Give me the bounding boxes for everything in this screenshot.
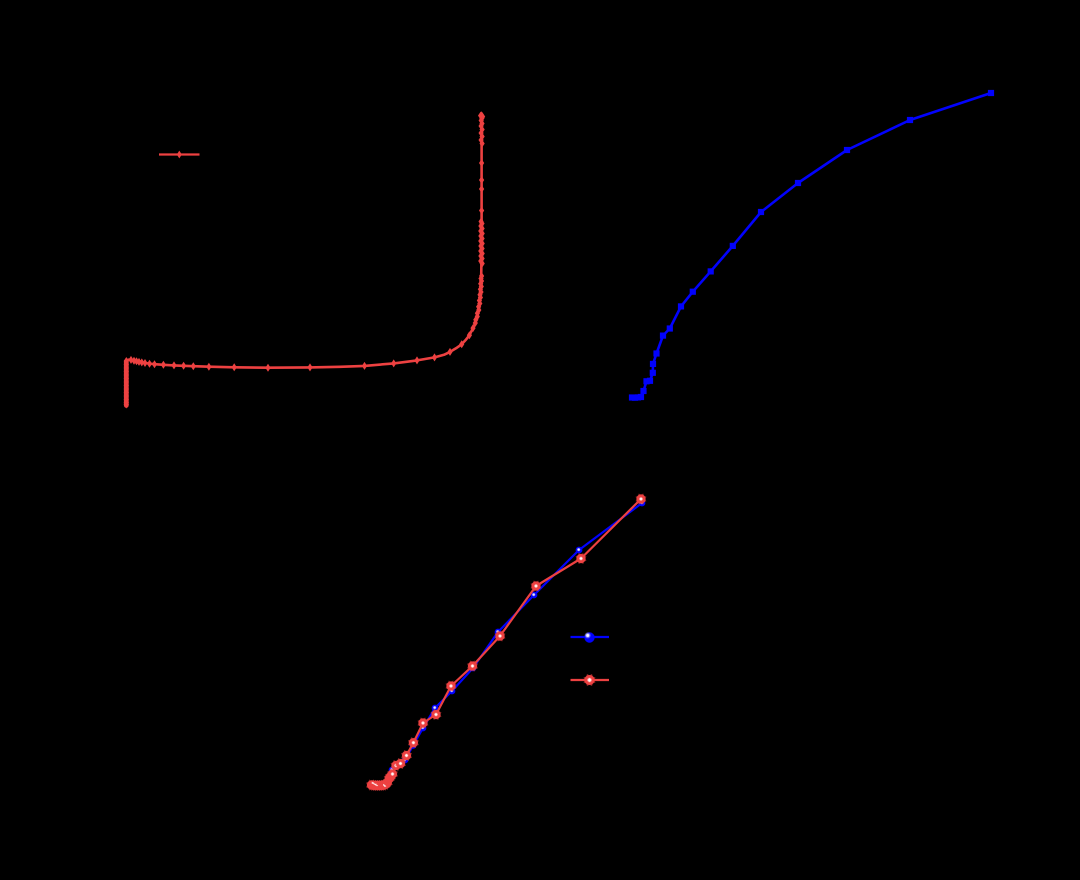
bottom legend red glossy marker <box>583 674 595 686</box>
bottom legend blue sample line <box>571 636 610 638</box>
bottom blue curve line <box>372 503 643 786</box>
bottom legend blue glossy marker <box>584 632 594 642</box>
top-left red curve initial-drop thick segment <box>124 362 129 406</box>
top-left legend sample line <box>159 153 200 155</box>
bottom red cluster white speckles <box>372 782 387 787</box>
bottom blue curve glossy markers <box>368 500 645 790</box>
bottom red curve line <box>372 499 642 785</box>
top-left red curve diamond markers <box>124 111 486 408</box>
top-right blue curve square markers <box>629 90 994 401</box>
top-left legend diamond marker <box>177 151 182 159</box>
bottom legend red sample line <box>571 679 610 681</box>
bottom red curve glossy markers <box>366 494 646 791</box>
top-left red curve line <box>126 115 481 405</box>
top-right blue curve line <box>632 93 991 398</box>
